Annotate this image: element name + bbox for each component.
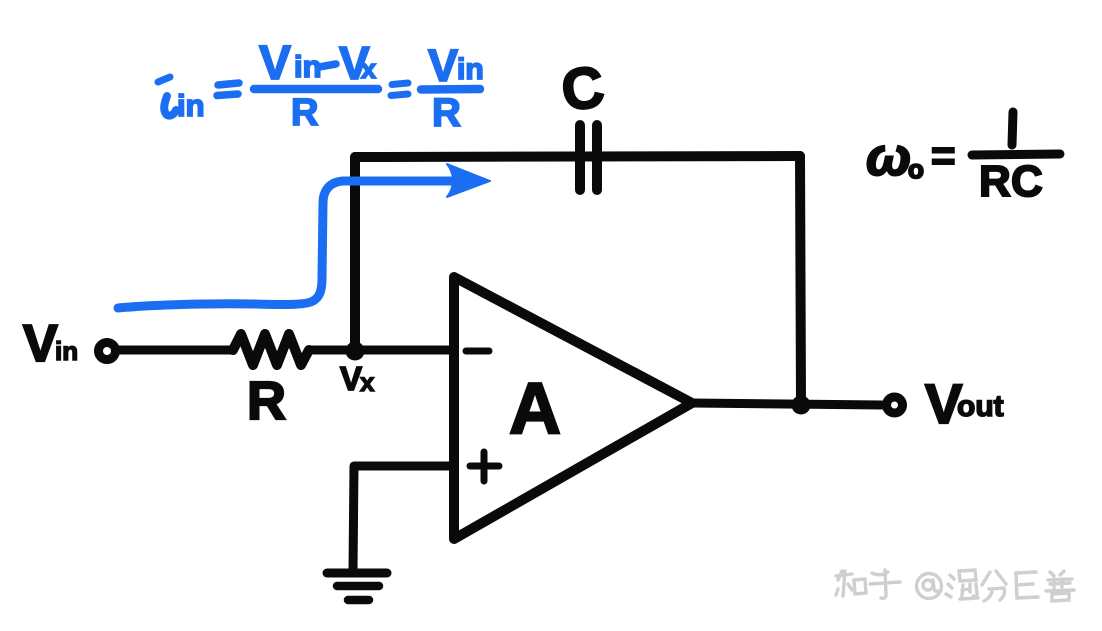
node Vx junction dot: [346, 342, 365, 361]
wire node Vx up to feedback: [350, 157, 360, 352]
ground: [327, 573, 387, 600]
watermark zhihu: [836, 570, 1074, 601]
terminal Vin circle: [99, 343, 116, 360]
svg-text:V: V: [428, 40, 458, 91]
svg-text:R: R: [291, 92, 318, 134]
op-amp plus input sign: [470, 452, 499, 481]
svg-text:in: in: [55, 336, 78, 366]
resistor R: [233, 334, 309, 365]
svg-text:V: V: [340, 360, 362, 397]
svg-text:out: out: [957, 390, 1004, 423]
svg-text:x: x: [361, 54, 376, 84]
svg-text:R: R: [979, 157, 1011, 206]
svg-text:in: in: [177, 88, 205, 123]
blue current arrow: [118, 181, 455, 308]
svg-text:R: R: [432, 91, 461, 135]
i body: [164, 96, 176, 116]
wire feedback right vertical down to output node: [800, 156, 801, 403]
wire Vin terminal to resistor: [119, 346, 233, 355]
wire op-amp plus input to ground: [353, 466, 452, 571]
equals 1: [217, 83, 239, 96]
svg-text:R: R: [247, 371, 286, 431]
blue arrowhead: [447, 164, 490, 197]
terminal Vout circle: [887, 397, 903, 413]
equals 2: [391, 83, 408, 96]
node output junction dot: [792, 396, 811, 415]
blue formula i_in = (Vin - Vx)/R = Vin/R: [158, 37, 484, 135]
wire resistor to op-amp inverting input: [309, 346, 452, 355]
svg-text:V: V: [259, 37, 291, 90]
svg-text:A: A: [509, 369, 561, 449]
wire op-amp output to Vout terminal: [692, 403, 882, 405]
fraction bar 2: [421, 85, 480, 94]
svg-text:C: C: [1011, 157, 1043, 206]
i accent: [158, 77, 170, 82]
svg-text:V: V: [23, 315, 58, 373]
svg-text:C: C: [557, 54, 608, 124]
formula omega0 = 1/RC: [866, 112, 1060, 206]
svg-text:ω: ω: [866, 127, 911, 187]
svg-text:in: in: [457, 53, 484, 86]
capacitor C1 plates: [580, 125, 597, 190]
svg-text:x: x: [360, 367, 375, 397]
op-amp U1 triangle: [454, 277, 692, 539]
fraction bar 1: [254, 85, 378, 94]
svg-text:=: =: [931, 132, 956, 179]
svg-text:o: o: [908, 154, 924, 184]
op-amp minus input sign: [466, 348, 489, 355]
wire feedback top horizontal through capacitor: [355, 156, 800, 157]
